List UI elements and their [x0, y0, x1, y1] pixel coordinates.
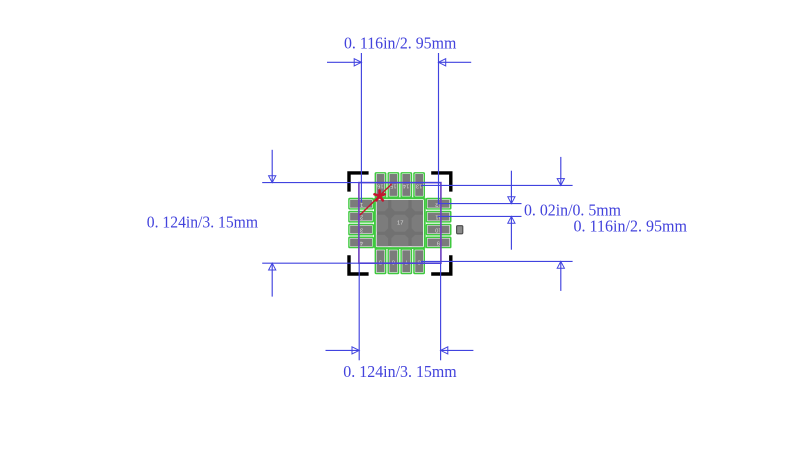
courtyard corner bracket bottom-right: [431, 255, 451, 274]
bottom dimension extension line left (x=359.2): [358, 263, 360, 360]
svg-text:0. 116in/2. 95mm: 0. 116in/2. 95mm: [344, 34, 456, 53]
pad 7 (bottom row): [400, 248, 412, 274]
pad 3 (left column): [348, 224, 374, 236]
svg-text:0. 124in/3. 15mm: 0. 124in/3. 15mm: [147, 213, 258, 232]
svg-text:16: 16: [377, 183, 383, 189]
pad 4 (left column): [348, 237, 374, 249]
left dimension arrow line bottom: [269, 263, 276, 296]
top dimension extension line left (x=361.4): [360, 53, 362, 202]
left dimension extension line top (y=182.6): [262, 182, 441, 184]
pin 1 marker asterisk: [375, 191, 385, 201]
top dimension extension line right (x=438.5): [438, 53, 440, 205]
pad 1 (left column): [348, 198, 374, 210]
svg-text:0. 124in/3. 15mm: 0. 124in/3. 15mm: [343, 362, 457, 381]
pad 14 (top row): [400, 172, 412, 198]
right dimension arrow line bottom: [557, 261, 564, 291]
left dimension arrow line top: [269, 150, 276, 183]
right dimension extension line bottom (y=261.4): [421, 260, 573, 262]
pad 2 (left column): [348, 211, 374, 223]
pad 6 (bottom row): [388, 248, 400, 274]
pad 11 (right column): [426, 211, 452, 223]
courtyard corner bracket top-right: [431, 173, 451, 192]
bottom dimension arrow line left: [326, 347, 360, 354]
via legend square: [457, 226, 463, 234]
thermal pad 17: [371, 194, 429, 252]
pad 9 (right column): [426, 237, 452, 249]
right dimension extension line top (y=185.4): [421, 184, 573, 186]
svg-text:0. 02in/0. 5mm: 0. 02in/0. 5mm: [524, 201, 621, 220]
package body outline (purple rect): [359, 183, 441, 264]
pad 16 (top row): [375, 172, 387, 198]
bottom dimension arrow line right: [441, 347, 474, 354]
svg-text:3: 3: [360, 227, 363, 233]
svg-text:17: 17: [397, 220, 403, 226]
pad 10 (right column): [426, 224, 452, 236]
bottom dimension extension line right (x=440.6): [440, 263, 442, 360]
top dimension arrow line right: [439, 59, 472, 66]
svg-text:14: 14: [402, 183, 409, 189]
top dimension arrow line left: [327, 59, 361, 66]
pitch dimension extension line top (y=203.6): [438, 203, 522, 205]
pad 15 (top row): [388, 172, 400, 198]
right dimension arrow line top: [557, 157, 564, 186]
pitch dimension extension line bottom (y=216.4): [438, 215, 522, 217]
pad 5 (bottom row): [375, 248, 387, 274]
pitch dimension arrow line bottom: [508, 216, 515, 249]
svg-text:15: 15: [390, 183, 396, 189]
left dimension extension line bottom (y=263.2): [262, 262, 441, 264]
pitch dimension arrow line top: [508, 171, 515, 204]
pad 13 (top row): [413, 172, 425, 198]
pad 12 (right column): [426, 198, 452, 210]
courtyard corner bracket top-left: [349, 173, 369, 192]
pad 8 (bottom row): [413, 248, 425, 274]
svg-text:9: 9: [437, 239, 440, 245]
courtyard corner bracket bottom-left: [349, 255, 369, 274]
pin 1 marker diagonal line: [360, 184, 392, 215]
